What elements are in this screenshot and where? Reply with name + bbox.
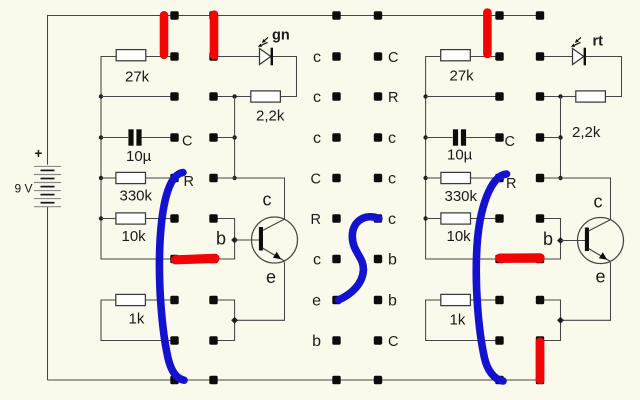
svg-text:1k: 1k <box>450 312 466 329</box>
svg-text:R: R <box>184 174 194 190</box>
wire emitter of Q2 down to junctions <box>561 262 611 320</box>
resistor R5 1k <box>101 294 175 340</box>
junction <box>232 135 236 139</box>
red jumper row7 right (emitter short) <box>500 253 540 263</box>
LED D2 red branch wire <box>540 56 573 58</box>
svg-text:e: e <box>596 267 606 287</box>
wire node B5 to collector of Q1 <box>214 178 285 219</box>
resistor R10 1k <box>426 294 500 340</box>
svg-text:C: C <box>388 50 398 66</box>
svg-text:b: b <box>312 333 321 350</box>
svg-text:c: c <box>388 170 396 187</box>
wire node B5 to collector of Q2 <box>540 178 611 220</box>
svg-text:e: e <box>266 267 276 287</box>
pads left block column A <box>170 11 178 384</box>
svg-text:2,2k: 2,2k <box>572 124 601 141</box>
svg-text:2,2k: 2,2k <box>256 108 285 125</box>
wire node B3 to right rail2 <box>540 96 561 98</box>
junction <box>99 135 103 139</box>
svg-text:e: e <box>312 292 321 309</box>
battery BT1 9V <box>34 166 61 206</box>
svg-text:c: c <box>263 190 272 210</box>
wire node B4 to rail2 <box>214 137 235 139</box>
resistor R3 330k <box>101 172 175 204</box>
wire bottom ground rail <box>48 379 541 381</box>
junction <box>232 94 236 98</box>
junction <box>99 216 103 220</box>
blue wire right: R node to ground rail <box>476 174 506 381</box>
wire node B4 to right rail2 <box>540 137 561 139</box>
svg-text:C: C <box>182 134 192 150</box>
wire node B3 to rail2 <box>214 96 235 98</box>
svg-text:C: C <box>388 334 398 350</box>
resistor R8 330k <box>426 172 500 205</box>
wire LED D2 cathode down to resistor R7 <box>586 57 622 97</box>
pads central column A <box>332 11 340 384</box>
junction <box>423 135 427 139</box>
svg-text:1k: 1k <box>129 311 145 328</box>
svg-text:b: b <box>388 292 397 309</box>
wire right rail2 (collector feed) <box>560 97 562 179</box>
svg-text:c: c <box>388 130 396 147</box>
transistor Q1 <box>252 217 298 263</box>
resistor R4 10k <box>101 213 175 245</box>
transistor Q2 <box>578 218 624 264</box>
wire node B8 to node B9 (emitter feed Q2) <box>540 300 561 341</box>
svg-text:330k: 330k <box>445 188 478 205</box>
wire LED D1 cathode down to resistor R2 <box>273 57 297 97</box>
wire right block supply branch rail <box>426 57 500 260</box>
junction base tap <box>231 237 238 244</box>
pads right block column A <box>495 11 503 384</box>
svg-text:9 V: 9 V <box>15 182 33 196</box>
red jumper row7 left (emitter short) <box>176 258 216 259</box>
junction <box>99 176 103 180</box>
LED D1 gn <box>258 28 290 66</box>
svg-text:c: c <box>313 89 321 106</box>
junction <box>558 176 562 180</box>
blue wire left: R node to ground rail <box>159 173 184 381</box>
svg-text:C: C <box>505 134 515 150</box>
junction base tap Q2 <box>557 237 564 244</box>
resistor R2 2,2k <box>235 91 285 125</box>
svg-text:+: + <box>35 146 43 161</box>
wire left bus from battery plus to top rail <box>47 15 49 165</box>
wire base of Q1 <box>235 239 262 241</box>
junction <box>423 216 427 220</box>
LED D2 rt <box>571 34 603 66</box>
wire row3 from right rail to node A3 <box>426 96 500 98</box>
svg-text:R: R <box>506 176 516 192</box>
svg-text:b: b <box>216 229 226 249</box>
wire top supply rail <box>48 15 541 17</box>
svg-text:27k: 27k <box>125 69 150 86</box>
capacitor C2 10u <box>426 129 500 163</box>
wire node B6 down to node B7 (base feed) <box>214 219 235 260</box>
junction <box>558 135 562 139</box>
svg-text:gn: gn <box>272 28 290 44</box>
red jumper from top rail to 27k row (left) <box>160 15 169 54</box>
wire left rail2 (collector feed) <box>234 97 236 179</box>
red jumper bottom right to ground rail <box>536 342 545 380</box>
red jumper from top rail to 27k row (right) <box>483 13 492 54</box>
svg-text:10k: 10k <box>447 228 472 245</box>
svg-text:c: c <box>313 251 321 268</box>
wire node B6 down to node B7 (base feed Q2) <box>540 219 561 260</box>
wire emitter of Q1 down and to node row junctions <box>235 262 285 321</box>
pads central column B <box>374 11 382 384</box>
svg-text:10k: 10k <box>122 228 147 245</box>
svg-text:330k: 330k <box>120 188 153 205</box>
red jumper from top rail to LED row (left) <box>210 15 219 56</box>
labels central column A (c c c C R c e b) <box>311 49 322 350</box>
LED D1 green branch wire <box>214 56 260 58</box>
labels central column B (C R c c c b b C) <box>388 50 398 350</box>
wire base of Q2 <box>561 240 588 242</box>
svg-text:R: R <box>388 90 398 106</box>
junction <box>558 94 562 98</box>
svg-text:R: R <box>311 212 321 228</box>
pads right block column B <box>536 11 544 384</box>
svg-text:rt: rt <box>593 34 604 50</box>
resistor R1 27k <box>116 50 174 86</box>
pads left block column B <box>209 11 217 384</box>
wire row3 from rail to node A3 <box>101 96 175 98</box>
junction <box>99 94 103 98</box>
svg-text:b: b <box>388 251 397 268</box>
wire left block supply branch rail <box>101 57 175 260</box>
svg-text:c: c <box>388 211 396 228</box>
svg-text:27k: 27k <box>450 68 475 85</box>
wire left bus from battery minus to bottom rail <box>47 207 49 380</box>
capacitor C1 10u <box>101 129 175 165</box>
svg-text:10µ: 10µ <box>126 148 152 165</box>
wire node B8 to node B9 (emitter feed) <box>214 300 235 341</box>
resistor R7 2,2k <box>561 91 606 141</box>
junction emitter tap Q2 <box>557 317 564 324</box>
junction <box>423 94 427 98</box>
junction <box>423 176 427 180</box>
svg-text:C: C <box>311 172 321 188</box>
resistor R9 10k <box>426 213 500 245</box>
blue wire central: c node to e node <box>339 217 379 300</box>
resistor R6 27k <box>441 50 500 85</box>
svg-text:c: c <box>313 49 321 66</box>
svg-text:c: c <box>313 130 321 147</box>
junction <box>232 176 236 180</box>
svg-text:10µ: 10µ <box>447 147 473 164</box>
svg-text:b: b <box>543 229 553 249</box>
svg-text:c: c <box>594 192 603 212</box>
junction emitter tap <box>231 317 238 324</box>
